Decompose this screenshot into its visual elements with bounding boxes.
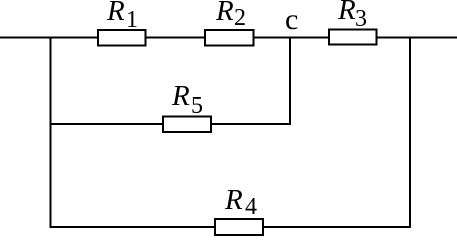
wire node c vertical drop xyxy=(289,38,291,126)
wire bottom branch horizontal xyxy=(50,226,412,228)
svg-text:2: 2 xyxy=(234,5,246,31)
svg-text:c: c xyxy=(285,3,298,36)
wire top segment left edge to node a xyxy=(0,37,98,39)
svg-text:3: 3 xyxy=(355,6,367,32)
resistor R2 xyxy=(205,30,254,46)
resistor R5 xyxy=(163,117,211,133)
resistor R4 xyxy=(215,219,263,235)
svg-text:4: 4 xyxy=(245,194,257,220)
svg-text:R: R xyxy=(106,0,125,27)
wire R1 to R2 xyxy=(146,37,206,39)
svg-text:R: R xyxy=(337,0,356,26)
wire left vertical branch xyxy=(50,37,52,229)
wire R2 to R3 through node c xyxy=(254,37,330,39)
svg-text:1: 1 xyxy=(126,7,138,33)
wire middle branch horizontal xyxy=(50,123,291,125)
svg-text:R: R xyxy=(224,184,243,216)
wire right vertical branch xyxy=(409,37,411,229)
wire R3 to right edge xyxy=(376,37,457,39)
svg-text:R: R xyxy=(171,80,190,112)
svg-text:R: R xyxy=(215,0,234,27)
svg-text:5: 5 xyxy=(191,93,203,119)
resistor R3 xyxy=(329,30,377,45)
resistor R1 xyxy=(98,30,146,46)
